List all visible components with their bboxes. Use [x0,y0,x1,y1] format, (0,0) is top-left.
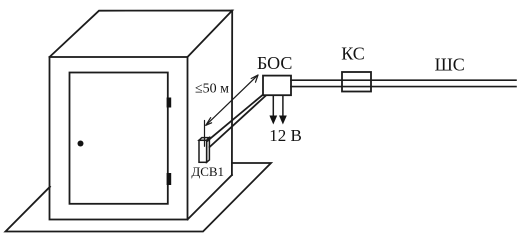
KS block [342,72,371,92]
BOS block [263,76,291,96]
sensor DSV1 top face [199,138,209,163]
svg-text:БОС: БОС [257,53,292,73]
door [70,73,168,204]
cable from sensor to BOS [208,95,266,147]
svg-text:КС: КС [341,44,365,64]
12V arrow shafts [273,95,283,116]
sensor DSV1 front face [199,140,207,162]
hinge bottom [167,173,172,185]
wire upper [291,79,516,81]
svg-text:ШС: ШС [435,54,465,74]
cabinet back-right edge [231,11,233,176]
platform base [6,163,272,232]
cabinet right-face bottom edge [188,175,232,220]
cabinet front face [50,57,188,220]
wire lower [291,86,516,88]
svg-text:≤50 м: ≤50 м [195,82,229,97]
cabinet top face [50,11,233,58]
sensor DSV1 right face [207,138,210,163]
dimension arrow <=50 m [205,75,259,146]
lock dot [78,141,84,147]
hinge top [167,98,172,108]
svg-text:ДСВ1: ДСВ1 [191,164,224,179]
svg-text:12 В: 12 В [269,126,302,145]
12V arrowheads [269,116,277,125]
